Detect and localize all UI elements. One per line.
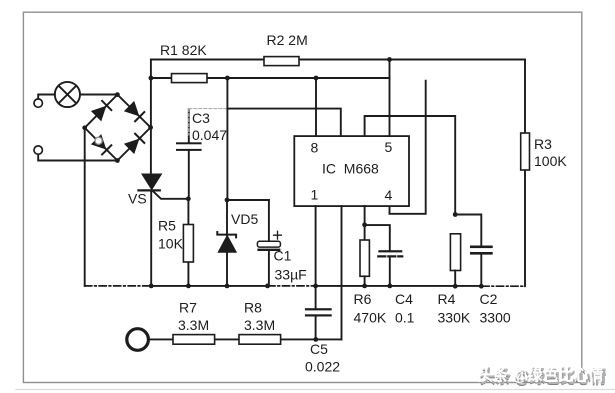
svg-text:R5: R5 — [158, 218, 176, 234]
zener diode VD5 — [217, 200, 236, 286]
svg-text:100K: 100K — [534, 153, 567, 169]
IC U1 box — [294, 136, 409, 206]
svg-text:R2 2M: R2 2M — [267, 32, 308, 48]
svg-text:3.3M: 3.3M — [178, 317, 209, 333]
svg-text:VD5: VD5 — [231, 211, 258, 227]
resistor R4 — [450, 234, 460, 286]
svg-text:8: 8 — [311, 140, 319, 156]
svg-text:330K: 330K — [438, 310, 471, 326]
terminal input top — [34, 99, 42, 107]
touch terminal — [127, 329, 149, 351]
diode VD4 (lower-right) — [125, 134, 145, 154]
svg-text:R4: R4 — [438, 291, 456, 307]
resistor R3 — [521, 133, 530, 170]
svg-text:IC M668: IC M668 — [322, 161, 379, 177]
wire pin1/C5 vertical — [315, 206, 317, 339]
bottom rail dashed mid — [268, 285, 316, 287]
diode VD1 (upper-left) — [92, 101, 112, 121]
svg-text:头条 @绿色比心情: 头条 @绿色比心情 — [478, 365, 604, 385]
svg-text:0.022: 0.022 — [305, 359, 340, 375]
capacitor C1 electrolytic — [257, 200, 281, 286]
wire — [38, 95, 55, 99]
dashed box around C3 label — [189, 108, 228, 110]
svg-text:R3: R3 — [534, 136, 552, 152]
bottom rail dashed end — [482, 285, 525, 287]
watermark — [478, 365, 607, 388]
wire — [80, 94, 117, 96]
bridge diamond wires — [85, 95, 151, 161]
bottom rail — [316, 285, 482, 287]
bottom rail dashed left — [85, 285, 152, 287]
wire — [38, 154, 117, 160]
wire R6 node to C4 — [365, 225, 390, 250]
wire pin3 to R6 — [364, 206, 366, 240]
svg-text:33µF: 33µF — [275, 267, 307, 283]
wire R3 top from rail — [524, 60, 526, 287]
svg-text:C3: C3 — [192, 110, 210, 126]
wire pin8 — [315, 78, 317, 136]
capacitor C2 — [470, 246, 493, 287]
diode VD3 (lower-left) — [92, 135, 112, 155]
svg-text:C5: C5 — [310, 341, 328, 357]
svg-text:R1 82K: R1 82K — [160, 42, 207, 58]
capacitor C4 — [378, 250, 402, 286]
resistor R1 — [172, 74, 208, 83]
resistor R6 — [360, 240, 369, 286]
resistor R2 — [264, 57, 299, 66]
wire pin2 down to touch line — [341, 206, 343, 339]
svg-text:R7: R7 — [179, 300, 197, 316]
svg-text:VS: VS — [128, 191, 147, 207]
svg-text:C2: C2 — [480, 291, 498, 307]
lamp — [55, 82, 80, 107]
svg-text:3.3M: 3.3M — [244, 317, 275, 333]
wire R4 node to C2 — [455, 215, 481, 246]
svg-text:1: 1 — [311, 187, 319, 203]
svg-text:470K: 470K — [354, 310, 387, 326]
white circle artifact — [95, 137, 102, 144]
svg-text:C1: C1 — [274, 248, 292, 264]
svg-text:5: 5 — [385, 139, 393, 155]
bottom rail — [151, 285, 268, 287]
wire pin4 jog and stub up — [390, 81, 426, 214]
wire VD5 node to C1 — [227, 199, 269, 201]
wire VS cathode down — [150, 190, 152, 286]
svg-text:3300: 3300 — [480, 310, 511, 326]
wire pin7 net — [227, 109, 340, 137]
capacitor C5 — [305, 308, 332, 316]
wire left vertex down to bottom rail — [84, 128, 86, 286]
resistor R7 — [173, 335, 215, 345]
wire C3/VD5 vertical from rail2 — [226, 78, 228, 200]
thyristor VS — [138, 174, 188, 199]
svg-text:4: 4 — [385, 187, 393, 203]
svg-text:C4: C4 — [395, 291, 413, 307]
resistor R5 — [183, 199, 193, 286]
faint bottom line — [16, 389, 615, 391]
wire top rail — [151, 59, 525, 61]
diode VD2 (upper-right) — [125, 102, 145, 122]
resistor R8 — [239, 335, 281, 345]
svg-text:0.047: 0.047 — [192, 127, 227, 143]
wire right vertex / anode line down to VS — [150, 60, 152, 175]
wire touch line — [148, 338, 342, 340]
wire pin6 net — [365, 116, 456, 215]
svg-text:0.1: 0.1 — [395, 310, 415, 326]
wire pin5 — [389, 60, 391, 137]
terminal input bottom — [34, 146, 42, 154]
svg-text:10K: 10K — [158, 236, 184, 252]
svg-text:R6: R6 — [354, 291, 372, 307]
wire second rail R1 — [151, 77, 390, 79]
capacitor C3 — [176, 109, 202, 199]
svg-text:R8: R8 — [244, 300, 262, 316]
